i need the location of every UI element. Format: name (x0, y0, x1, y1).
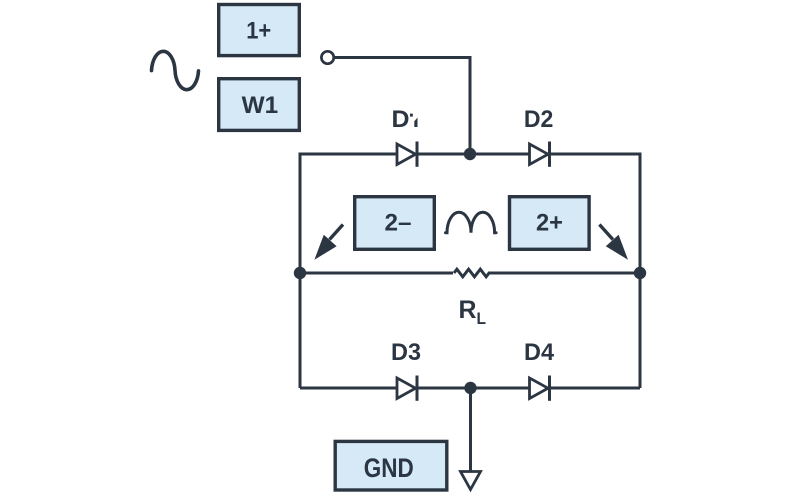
wire bottom rail (300, 387, 640, 390)
svg-text:GND: GND (364, 453, 414, 483)
svg-text:2–: 2– (385, 210, 412, 237)
arrow left (314, 225, 343, 260)
node mid-left junction (294, 267, 306, 279)
diode D1 (397, 142, 417, 167)
wire mid rail right (488, 272, 640, 275)
node top junction (464, 148, 476, 160)
svg-text:D: D (392, 106, 410, 133)
diode D2 (530, 142, 550, 167)
diode D4 (530, 376, 550, 401)
wire to ground (469, 388, 472, 471)
box GND (335, 441, 447, 490)
svg-text:2+: 2+ (536, 210, 563, 237)
open terminal circle (321, 51, 333, 63)
node mid-right junction (634, 267, 646, 279)
ground symbol (461, 472, 481, 490)
label RL (459, 296, 487, 328)
box 1+ (219, 5, 300, 56)
svg-text:D2: D2 (524, 106, 554, 133)
resistor RL zigzag (454, 269, 489, 277)
wire left rail (299, 153, 302, 389)
svg-text:R: R (459, 296, 477, 324)
arrow right (599, 225, 628, 260)
box 2- (355, 197, 435, 250)
wire top rail (300, 153, 640, 156)
wire mid rail left (300, 272, 453, 275)
sine wave symbol (AC source) (152, 51, 199, 89)
diode D3 (397, 376, 417, 401)
center-tap humps symbol (446, 212, 497, 232)
box W1 (219, 79, 300, 131)
svg-text:D3: D3 (391, 339, 421, 366)
label D1 (digit 1 partially clipped as in original) (392, 106, 418, 133)
svg-text:1+: 1+ (246, 18, 271, 45)
wire right rail (639, 153, 642, 389)
svg-text:W1: W1 (242, 92, 279, 119)
wire from terminal to top node (335, 58, 470, 155)
node bottom junction (464, 382, 476, 394)
box 2+ (510, 197, 590, 250)
svg-text:L: L (477, 309, 487, 328)
svg-text:D4: D4 (524, 339, 555, 366)
